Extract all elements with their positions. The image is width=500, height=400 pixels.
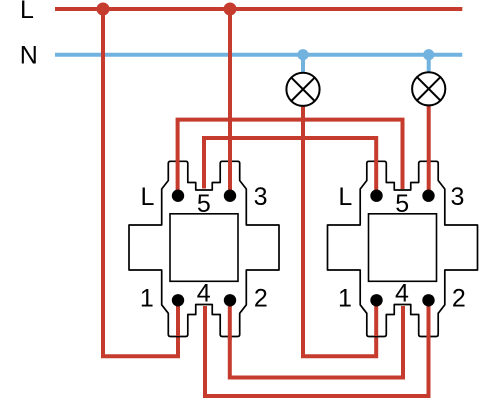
svg-text:2: 2 bbox=[254, 285, 268, 313]
svg-text:1: 1 bbox=[140, 284, 154, 312]
svg-text:3: 3 bbox=[450, 183, 464, 211]
svg-text:L: L bbox=[140, 183, 154, 211]
svg-text:3: 3 bbox=[254, 183, 268, 211]
svg-text:L: L bbox=[338, 183, 352, 211]
svg-text:1: 1 bbox=[338, 284, 352, 312]
svg-text:4: 4 bbox=[197, 280, 211, 308]
svg-text:L: L bbox=[20, 0, 34, 24]
svg-text:N: N bbox=[20, 42, 38, 70]
svg-text:4: 4 bbox=[395, 280, 409, 308]
svg-text:2: 2 bbox=[452, 285, 466, 313]
svg-text:5: 5 bbox=[197, 190, 211, 218]
svg-text:5: 5 bbox=[395, 190, 409, 218]
